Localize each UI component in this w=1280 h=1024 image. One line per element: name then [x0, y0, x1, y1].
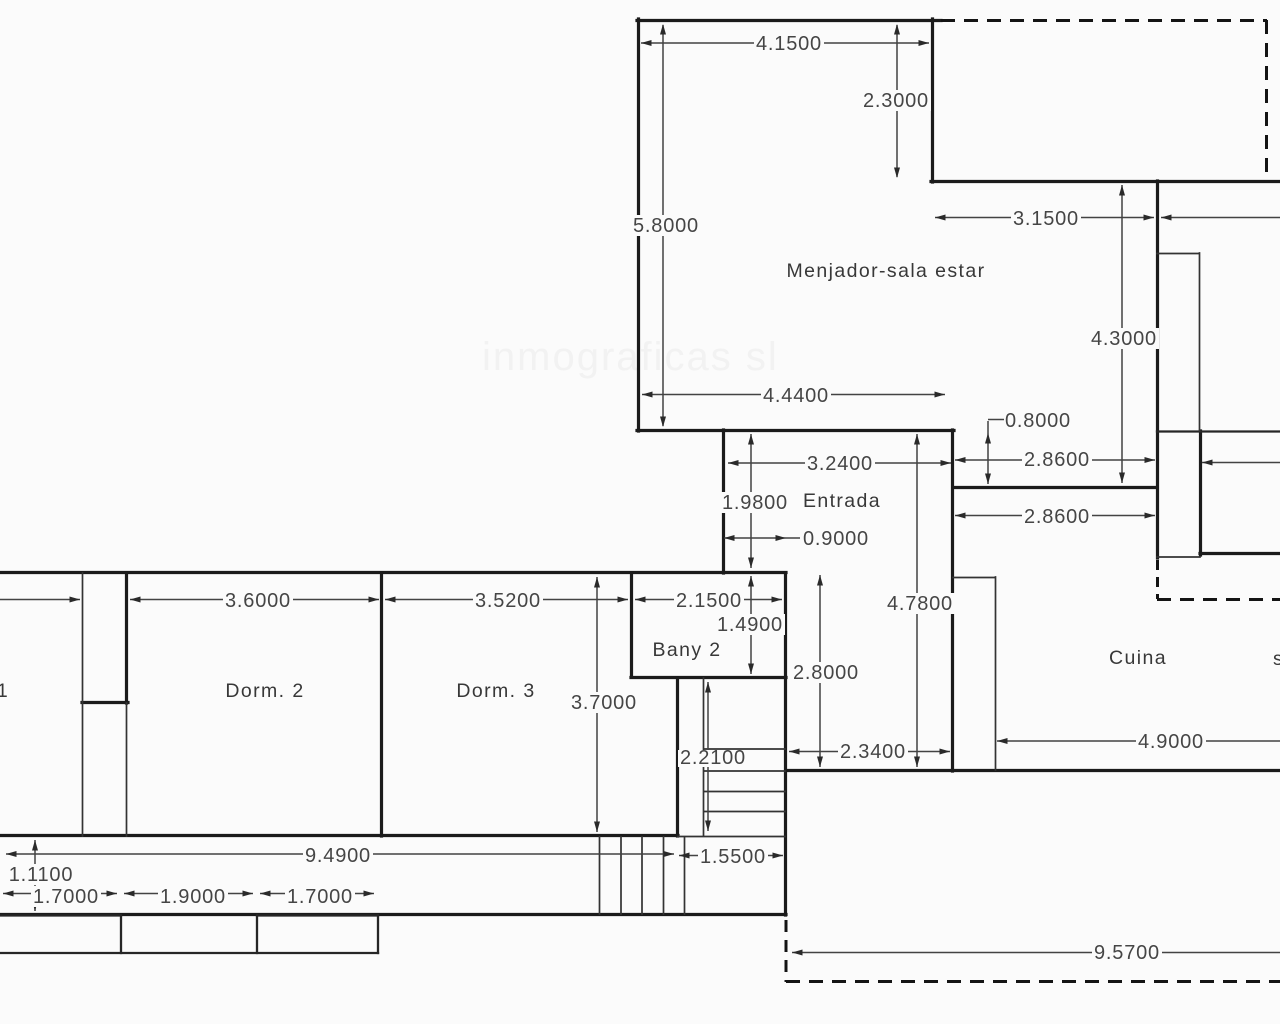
arrows 1.9000: [124, 891, 135, 897]
dim 1.4900 line: [750, 576, 752, 674]
svg-text:1.7000: 1.7000: [33, 886, 99, 908]
svg-text:9.4900: 9.4900: [305, 845, 371, 867]
dashed bottom horizontal: [786, 980, 1280, 983]
dashed boundary lines: [786, 20, 1280, 982]
svg-text:0.9000: 0.9000: [803, 528, 869, 550]
wall: menjador left: [637, 19, 640, 431]
medium lines: [0, 432, 1280, 954]
dim 2.8000 line: [819, 575, 821, 767]
wall: bany2 bottom: [631, 676, 786, 679]
wall: dorm bottom: [0, 834, 678, 837]
corridor treads vertical: [600, 837, 685, 914]
svg-text:3.6000: 3.6000: [225, 590, 291, 612]
arrows 4.1500: [641, 40, 652, 46]
wall: dorm2/3: [380, 573, 383, 836]
arrows 2.3000: [894, 24, 900, 35]
svg-text:Dorm. 2: Dorm. 2: [225, 680, 304, 702]
wall: dorm1/2 thick part: [125, 573, 128, 703]
stair tread left edge: [703, 678, 705, 836]
dim 1.9000 line: [124, 893, 253, 895]
svg-text:2.8000: 2.8000: [793, 662, 859, 684]
dim 1.1100 line: [34, 840, 36, 911]
arrows 2.3400: [789, 749, 800, 755]
wall: menjador bottom: [637, 429, 954, 432]
room labels: [0, 260, 1280, 702]
dim 4.1500 line: [641, 42, 929, 44]
dim 3.7000 line: [596, 577, 598, 832]
dim 9.5700 line: [792, 952, 1280, 954]
arrows 1.1100: [32, 840, 38, 851]
dim 1.5500 line: [679, 855, 783, 857]
svg-text:inmograficas sl: inmograficas sl: [482, 335, 779, 379]
wall: right L horizontal: [1200, 552, 1280, 555]
thin structure lines: [83, 253, 1201, 914]
dim 1.7000a line: [3, 893, 117, 895]
svg-text:1.7000: 1.7000: [287, 886, 353, 908]
arrow 9.5700: [792, 950, 803, 956]
dashed bottom vertical: [785, 920, 788, 982]
dim 2.1500 line: [635, 599, 782, 601]
dorm1/2 lower right edge: [126, 703, 128, 836]
svg-text:1.5500: 1.5500: [700, 846, 766, 868]
dim 1.9800 line: [750, 434, 752, 568]
wall: kitchen top: [953, 486, 1157, 489]
porch bottom: [0, 952, 378, 954]
svg-text:9.5700: 9.5700: [1094, 942, 1160, 964]
arrow cut dim right edge: [1202, 460, 1213, 466]
wall: menjador top: [637, 19, 941, 22]
arrows 2.2100: [705, 682, 711, 693]
svg-text:2.3000: 2.3000: [863, 90, 929, 112]
arrows 1.4900: [748, 576, 754, 587]
dashed terrace top: [941, 19, 1267, 22]
svg-text:2.8600: 2.8600: [1024, 449, 1090, 471]
svg-text:Bany 2: Bany 2: [652, 639, 721, 661]
porch step top edges: [0, 914, 378, 916]
arrows 3.7000: [594, 577, 600, 588]
wall: dorm1/2 crossbar: [82, 701, 128, 704]
wall: kitchen bottom: [786, 769, 1280, 772]
wall: entrada right: [951, 430, 954, 771]
svg-text:1.9000: 1.9000: [160, 886, 226, 908]
svg-text:2.2100: 2.2100: [680, 747, 746, 769]
wall: stair left: [676, 678, 679, 836]
svg-text:4.7800: 4.7800: [887, 593, 953, 615]
svg-text:2.1500: 2.1500: [676, 590, 742, 612]
svg-text:4.9000: 4.9000: [1138, 731, 1204, 753]
dim 4.7800 line: [916, 434, 918, 767]
svg-text:Dorm. 1: Dorm. 1: [0, 680, 9, 702]
svg-text:4.3000: 4.3000: [1091, 328, 1157, 350]
arrows 1.7000b: [260, 891, 271, 897]
dim 3.2400 line: [728, 462, 951, 464]
svg-text:1.4900: 1.4900: [717, 614, 783, 636]
arrows 4.3000: [1119, 185, 1125, 196]
dim 2.3400 line: [789, 751, 950, 753]
dim 4.4400 line: [642, 394, 945, 396]
wall: dorm3/bany2: [630, 573, 633, 677]
arrows 0.8000: [985, 433, 991, 444]
porch verticals: [121, 915, 378, 953]
dim 1.7000b line: [260, 893, 374, 895]
wall: right room bottom y431: [1157, 430, 1280, 432]
arrows 3.5200: [385, 597, 396, 603]
dim cut at right edge: [1202, 462, 1280, 464]
wall: right wall x1157: [1156, 181, 1159, 558]
dim 2.2100 line: [707, 682, 709, 831]
dim dorm1 partial line: [0, 599, 80, 601]
arrows 1.9800: [748, 434, 754, 445]
dim 0.9000 line: [724, 537, 800, 539]
arrows 5.8000: [660, 24, 666, 35]
wall: dorm top: [0, 571, 786, 574]
svg-text:2.3400: 2.3400: [840, 741, 906, 763]
svg-text:3.5200: 3.5200: [475, 590, 541, 612]
arrows 3.6000: [130, 597, 141, 603]
svg-text:Dorm. 3: Dorm. 3: [456, 680, 535, 702]
svg-text:1.1100: 1.1100: [9, 864, 74, 886]
dim 3.1500 line + continuation: [935, 217, 1280, 219]
dim 3.5200 line: [385, 599, 628, 601]
svg-text:3.1500: 3.1500: [1013, 208, 1079, 230]
dim 0.8000 line + leader: [988, 420, 1004, 485]
stair treads horizontal: [704, 749, 785, 812]
arrows 9.4900: [6, 851, 17, 857]
arrows 1.5500: [679, 853, 690, 859]
arrows 3.1500: [935, 215, 946, 221]
arrows 2.8000: [817, 575, 823, 586]
dim 3.6000 line: [130, 599, 379, 601]
svg-text:3.2400: 3.2400: [807, 453, 873, 475]
wall: corridor bottom: [0, 913, 786, 916]
svg-text:Entrada: Entrada: [803, 490, 881, 512]
svg-text:5.8000: 5.8000: [633, 215, 699, 237]
svg-text:4.1500: 4.1500: [756, 33, 822, 55]
svg-text:s: s: [1273, 648, 1280, 670]
dim 9.4900 line: [6, 853, 674, 855]
arrow dorm1 partial: [70, 597, 81, 603]
right thin joiner y557: [1157, 556, 1200, 558]
arrows 3.2400: [728, 460, 739, 466]
arrows 1.7000a: [3, 891, 14, 897]
dashed right short vertical: [1156, 560, 1159, 599]
wall: right L vertical: [1199, 431, 1202, 555]
wall: terrace bottom: [931, 180, 1280, 183]
svg-text:0.8000: 0.8000: [1005, 410, 1071, 432]
dim 4.3000 line: [1121, 185, 1123, 483]
kitchen pilaster: [953, 577, 996, 770]
svg-text:3.7000: 3.7000: [571, 692, 637, 714]
dim 2.8600 upper line: [955, 459, 1155, 461]
dashed right horizontal y599: [1157, 598, 1280, 601]
dorm1/2 left edge: [82, 573, 84, 836]
svg-text:4.4400: 4.4400: [763, 385, 829, 407]
dashed terrace right: [1265, 20, 1268, 181]
svg-text:Cuina: Cuina: [1109, 647, 1167, 669]
arrows 4.4400: [642, 392, 653, 398]
stair bottom thin: [678, 836, 785, 838]
arrows 2.8600 lower: [955, 513, 966, 519]
dim 2.3000 line: [896, 25, 898, 177]
dim 2.8600 lower line: [955, 515, 1155, 517]
svg-text:1.9800: 1.9800: [722, 492, 788, 514]
arrows 0.9000: [724, 535, 735, 541]
arrows 2.8600 upper: [955, 457, 966, 463]
right thin rect upper: [1157, 253, 1200, 431]
wall: bany2/stair right: [784, 573, 787, 915]
svg-text:2.8600: 2.8600: [1024, 506, 1090, 528]
arrow 4.9000: [997, 738, 1008, 744]
dim 5.8000 line: [662, 25, 664, 426]
wall: entrada left: [722, 430, 725, 573]
arrows 4.7800: [914, 434, 920, 445]
svg-text:Menjador-sala estar: Menjador-sala estar: [787, 260, 986, 282]
arrows 2.1500: [635, 597, 646, 603]
wall: menjador right upper: [931, 19, 934, 182]
dim 4.9000 line: [997, 740, 1280, 742]
